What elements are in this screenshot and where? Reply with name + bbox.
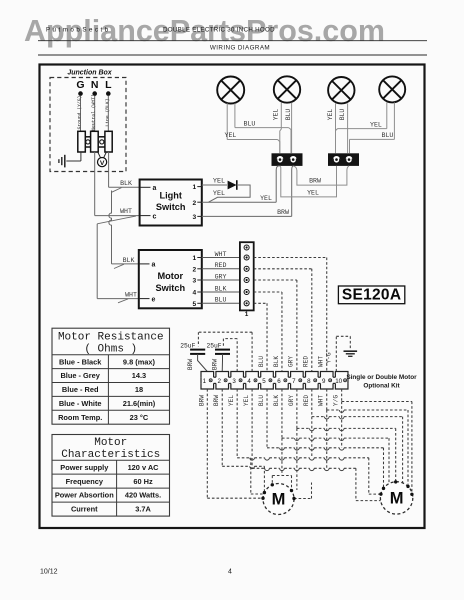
wire line BLK vertical	[108, 152, 110, 187]
light switch pin 1	[192, 184, 201, 191]
svg-text:1: 1	[192, 255, 196, 262]
svg-text:RED: RED	[303, 356, 310, 367]
svg-text:Frequency: Frequency	[66, 477, 104, 486]
svg-text:YEL: YEL	[213, 190, 225, 198]
svg-text:4: 4	[228, 569, 232, 576]
svg-text:7: 7	[292, 378, 296, 385]
svg-text:BRW: BRW	[187, 359, 194, 370]
svg-text:WIRING DIAGRAM: WIRING DIAGRAM	[210, 45, 270, 52]
diode D1	[228, 180, 237, 190]
wire BRW TB1 to TB2	[293, 166, 349, 185]
svg-text:Motor Resistance: Motor Resistance	[58, 332, 164, 344]
connector J1 contact 3	[244, 266, 249, 271]
capacitor C2 25uF	[206, 342, 230, 371]
svg-text:YEL: YEL	[213, 178, 225, 186]
svg-text:2: 2	[218, 378, 222, 385]
svg-text:60 Hz: 60 Hz	[133, 477, 153, 486]
svg-text:4: 4	[247, 378, 251, 385]
svg-text:YEL: YEL	[260, 195, 272, 202]
wire YEL light switch pin 2 to TB1	[202, 166, 280, 202]
svg-text:WHT: WHT	[125, 291, 137, 298]
wire lamp4 YEL lead	[336, 102, 387, 153]
dashed wire J1 contact 2 to strip cell 9	[254, 258, 327, 372]
svg-text:BRW: BRW	[198, 395, 205, 406]
svg-text:10/12: 10/12	[40, 569, 58, 576]
wire L dot to block	[107, 96, 109, 131]
svg-text:Line (BLK): Line (BLK)	[104, 98, 110, 126]
svg-text:BLK: BLK	[273, 395, 280, 406]
terminal strip TB3	[201, 372, 348, 390]
connector J1 contact 5	[244, 289, 249, 294]
connector J1 contact 4	[244, 277, 249, 282]
wire BLK into motor switch pin a	[112, 257, 139, 269]
svg-text:BLU: BLU	[258, 356, 265, 367]
svg-text:1: 1	[203, 378, 207, 385]
svg-text:Switch: Switch	[155, 283, 185, 293]
svg-text:Blue - White: Blue - White	[59, 399, 102, 408]
svg-text:M: M	[272, 491, 286, 509]
dashed wire BRW cell2 to motor M1	[222, 389, 264, 493]
dashed wire RED cell8 to motor M2	[312, 389, 403, 483]
dashed wire J1 contact 4 to strip cell 7	[254, 280, 297, 372]
dashed wire GRY cell7 to motor M2	[297, 389, 396, 490]
dashed wire Y/G cell10 to motor M2	[342, 389, 412, 494]
svg-text:YEL: YEL	[225, 132, 237, 139]
svg-text:Blue - Grey: Blue - Grey	[60, 371, 100, 380]
wire YEL light switch pin 1	[202, 178, 227, 186]
wire N dot to block	[94, 96, 96, 131]
motor switch pin 5	[192, 301, 201, 308]
strip cell 2	[218, 378, 228, 385]
svg-text:Switch: Switch	[156, 202, 186, 212]
svg-text:YEL: YEL	[307, 190, 319, 197]
connector J1 contact 1	[244, 245, 249, 250]
svg-text:Junction Box: Junction Box	[67, 70, 112, 77]
svg-text:Optional Kit: Optional Kit	[363, 383, 400, 390]
svg-text:BRW: BRW	[309, 178, 321, 185]
svg-text:Power supply: Power supply	[60, 463, 109, 472]
svg-text:BLK: BLK	[215, 285, 227, 292]
motor switch pin 4	[192, 290, 201, 297]
dashed wire BLU cell5 to motor M2	[267, 389, 383, 488]
svg-text:RED: RED	[303, 395, 310, 406]
svg-text:YEL: YEL	[370, 121, 382, 128]
svg-text:BLU: BLU	[244, 120, 256, 127]
dashed wire J1 contact 6 to strip cell 5	[254, 303, 267, 371]
svg-text:BLK: BLK	[123, 257, 135, 264]
wire BLK motor switch pin 4 to connector	[202, 285, 240, 292]
svg-text:3: 3	[192, 278, 196, 285]
svg-text:Room Temp.: Room Temp.	[58, 413, 102, 422]
svg-text:WHT: WHT	[318, 356, 325, 367]
table motor resistance	[52, 328, 170, 424]
svg-text:Motor: Motor	[158, 271, 184, 281]
dashed link motor M1 to riser	[294, 483, 312, 499]
lamp L1	[217, 77, 244, 104]
svg-text:Characteristics: Characteristics	[61, 449, 160, 461]
ground symbol junction box	[59, 152, 81, 167]
wire GRY motor switch pin 3 to connector	[202, 273, 240, 280]
junction terminal block	[78, 131, 112, 152]
wire WHT motor switch pin 1 to connector	[202, 251, 240, 258]
wire lamp3 BLU lead	[339, 103, 347, 153]
svg-text:BLK: BLK	[273, 356, 280, 367]
svg-text:Motor: Motor	[94, 437, 127, 449]
svg-text:3: 3	[232, 378, 236, 385]
strip cell 1	[203, 378, 213, 385]
svg-text:BLU: BLU	[285, 109, 292, 121]
svg-text:14.3: 14.3	[132, 371, 146, 380]
svg-text:GRY: GRY	[288, 356, 295, 367]
strip cell 5	[262, 378, 272, 385]
diagram outer border	[40, 65, 425, 529]
wire RED motor switch pin 2 to connector	[202, 262, 240, 269]
table motor characteristics	[52, 435, 170, 517]
wire neutral WHT vertical	[94, 152, 96, 216]
svg-text:Light: Light	[159, 191, 181, 201]
motor M2	[379, 480, 413, 514]
svg-text:120 v AC: 120 v AC	[128, 463, 160, 472]
wire diode to YEL node	[209, 185, 251, 202]
svg-text:L: L	[105, 79, 112, 91]
svg-text:BLU: BLU	[258, 395, 265, 406]
wire BLU motor switch pin 5 to connector	[202, 297, 240, 304]
svg-text:2: 2	[192, 200, 196, 207]
svg-text:25uF: 25uF	[180, 342, 195, 349]
svg-text:G: G	[76, 79, 84, 91]
svg-text:Neutral (WHT): Neutral (WHT)	[91, 94, 97, 131]
svg-text:V: V	[100, 160, 105, 167]
dashed wire J1 contact 5 to strip cell 6	[254, 292, 282, 372]
wire BLK to light switch pin a	[109, 180, 140, 192]
svg-text:M: M	[390, 489, 404, 507]
svg-text:N: N	[91, 79, 99, 91]
label Single or Double Motor Optional Kit	[346, 374, 417, 390]
capacitor C1 25uF	[180, 342, 207, 371]
motor switch pin e	[139, 296, 156, 303]
svg-text:Ground (Y/G): Ground (Y/G)	[77, 95, 83, 129]
svg-text:( Ohms ): ( Ohms )	[84, 344, 137, 356]
light switch pin a	[140, 185, 157, 192]
svg-text:Current: Current	[71, 505, 98, 514]
connector J1 contact 2	[244, 255, 249, 260]
lamp L4	[379, 76, 405, 102]
motor switch pin 2	[192, 266, 201, 273]
svg-text:YEL: YEL	[327, 109, 334, 121]
svg-text:6: 6	[277, 378, 281, 385]
light switch pin 3	[192, 214, 201, 221]
svg-text:21.6(min): 21.6(min)	[123, 399, 156, 408]
svg-text:GRY: GRY	[215, 273, 227, 280]
dashed link over motor M1	[272, 476, 291, 491]
model label SE120A	[338, 286, 404, 304]
svg-text:WHT: WHT	[120, 208, 132, 215]
svg-text:Blue - Red: Blue - Red	[62, 385, 99, 394]
connector J1 vertical strip	[240, 242, 254, 310]
wire lamp1 YEL lead	[225, 103, 280, 153]
svg-text:GRY: GRY	[288, 395, 295, 406]
wire BLK branch vertical to motor switch	[109, 191, 112, 264]
svg-text:420 Watts.: 420 Watts.	[125, 491, 161, 500]
svg-text:10: 10	[335, 378, 342, 385]
terminal G dot	[78, 91, 83, 96]
wire BRW light switch pin 3 to TB1	[202, 166, 293, 217]
svg-text:BLU: BLU	[215, 297, 227, 304]
svg-text:Y/G: Y/G	[333, 395, 340, 406]
svg-text:9.8 (max): 9.8 (max)	[123, 357, 156, 366]
wire YEL TB1 to TB2	[280, 166, 337, 197]
svg-text:9: 9	[322, 378, 326, 385]
svg-text:SE120A: SE120A	[342, 287, 402, 304]
svg-text:Single or Double Motor: Single or Double Motor	[346, 374, 417, 381]
junction box dashed outline	[50, 78, 126, 172]
svg-text:YEL: YEL	[243, 395, 250, 406]
motor switch pin a	[139, 262, 156, 269]
motor M1	[261, 483, 295, 514]
wire lamp2 BLU lead	[285, 103, 292, 154]
svg-text:RED: RED	[215, 262, 227, 269]
wire lamp3 YEL lead	[327, 103, 336, 153]
svg-text:WHT: WHT	[318, 395, 325, 406]
svg-text:a: a	[153, 185, 157, 192]
dashed wire YEL cell4 to motor M2	[252, 389, 382, 501]
motor switch pin 1	[192, 255, 201, 262]
light switch	[140, 180, 202, 226]
svg-text:5: 5	[192, 301, 196, 308]
dashed wire WHT cell9 to motor M2	[327, 389, 408, 486]
wire lamp2 YEL lead	[273, 103, 282, 154]
dashed wire YEL cell3 to motors	[237, 389, 381, 494]
light switch pin c	[140, 213, 157, 220]
dashed wire J1 contact 3 to strip cell 8	[254, 269, 312, 372]
motor switch	[139, 250, 202, 308]
svg-text:c: c	[153, 213, 157, 220]
svg-text:Power Absortion: Power Absortion	[55, 491, 114, 500]
strip cell 10	[335, 378, 346, 385]
svg-text:8: 8	[307, 378, 311, 385]
svg-text:3: 3	[192, 214, 196, 221]
svg-text:18: 18	[135, 385, 143, 394]
svg-text:3.7A: 3.7A	[135, 505, 151, 514]
terminal block TB2	[328, 153, 359, 166]
wire lamp4 BLU lead	[350, 102, 395, 153]
strip cell 6	[277, 378, 287, 385]
svg-text:BLK: BLK	[120, 180, 132, 187]
svg-text:1: 1	[245, 311, 249, 318]
svg-text:5: 5	[262, 378, 266, 385]
motor switch pin 3	[192, 278, 201, 285]
svg-text:23 °C: 23 °C	[130, 413, 149, 422]
svg-text:DOUBLE ELECTRIC 30 INCH HOOD: DOUBLE ELECTRIC 30 INCH HOOD	[163, 27, 275, 34]
svg-text:BRW: BRW	[212, 359, 219, 370]
svg-text:YEL: YEL	[273, 109, 280, 121]
strip cell 8	[307, 378, 317, 385]
ground symbol optional kit	[344, 351, 358, 356]
wire WHT to light switch pin c	[95, 208, 140, 224]
svg-text:2: 2	[192, 266, 196, 273]
wire lamp1 BLU lead	[235, 103, 291, 153]
connector J1 contact 6	[244, 301, 249, 306]
header rule lower	[38, 54, 427, 56]
svg-text:BRW: BRW	[213, 395, 220, 406]
strip cell 3	[232, 378, 242, 385]
voltage indicator V	[98, 152, 107, 167]
svg-text:a: a	[152, 262, 156, 269]
terminal L dot	[106, 91, 111, 96]
svg-text:4: 4	[192, 290, 196, 297]
dashed wire BRW cell1 to motor M1	[207, 389, 263, 498]
strip cell 4	[247, 378, 257, 385]
terminal block TB1	[272, 153, 303, 166]
svg-text:25uF: 25uF	[206, 342, 221, 349]
strip cell 9	[322, 378, 332, 385]
header rule upper	[38, 40, 427, 42]
dashed wire strip cell 4 to capacitors	[198, 332, 252, 371]
dashed wire strip cell 10 to ground	[336, 336, 350, 371]
svg-text:1: 1	[192, 184, 196, 191]
terminal N dot	[92, 91, 97, 96]
svg-text:BLU: BLU	[382, 132, 394, 139]
svg-text:BRW: BRW	[277, 209, 289, 216]
strip cell 7	[292, 378, 302, 385]
lamp L2	[274, 76, 300, 102]
wire G dot to block	[80, 96, 82, 131]
svg-text:Blue - Black: Blue - Black	[59, 357, 102, 366]
svg-text:e: e	[152, 296, 156, 303]
svg-text:YEL: YEL	[228, 395, 235, 406]
light switch pin 2	[192, 200, 201, 207]
dashed wire strip cell 3 to capacitor C2	[223, 339, 237, 372]
wire WHT into motor switch pin e	[97, 291, 139, 302]
svg-text:Y-G: Y-G	[325, 352, 332, 363]
svg-text:BLU: BLU	[339, 109, 346, 121]
svg-text:P u t m o b S e c t b: P u t m o b S e c t b	[46, 27, 109, 34]
svg-text:WHT: WHT	[215, 251, 227, 258]
dashed wire BLK cell6 to motor M2	[282, 389, 389, 484]
lamp L3	[328, 77, 354, 103]
wire WHT branch vertical to motor switch	[96, 224, 98, 299]
